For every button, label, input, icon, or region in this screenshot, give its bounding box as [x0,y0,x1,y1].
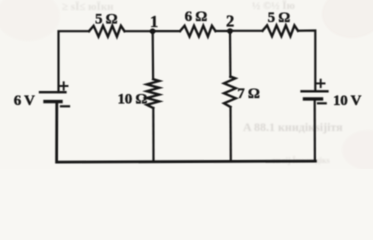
resistor R5 7ohm (vertical) zigzag [224,77,236,108]
wire: node 1 down to R4 [152,31,155,79]
svg-text:10 Ω: 10 Ω [118,92,148,108]
svg-text:5 Ω: 5 Ω [268,10,291,26]
resistor R3 5ohm (top right) zigzag [263,25,299,36]
battery V1 minus sign [61,105,69,107]
faint corner blotches [0,0,373,170]
battery V1 plus sign [60,82,68,89]
wire: node 2 down to R5 [229,31,232,77]
wire: battery V2 to bottom-right corner [314,99,316,161]
wire: R4 to bottom rail [152,108,154,162]
battery V2 plus sign [317,80,325,87]
battery V2 minus sign [318,102,326,104]
svg-text:5 Ω: 5 Ω [95,11,118,27]
wire: R1 to node 1 [125,30,153,32]
node 1 junction dot [150,28,156,34]
battery V1 6V plates [40,91,66,93]
paper background [0,0,373,169]
svg-text:6 Ω: 6 Ω [185,9,208,25]
faint bleed-through text [62,0,343,165]
wire: R2 to node 2 [216,30,231,32]
svg-text:10 V: 10 V [333,93,362,109]
wire: battery V1 to bottom-left corner and bottom rail [57,102,316,163]
resistor R1 5ohm (top left) zigzag [89,26,125,37]
svg-text:6 V: 6 V [14,93,35,109]
svg-text:1: 1 [150,12,158,31]
resistor R4 10ohm (vertical) zigzag [147,79,159,108]
wire: R3 to top-right corner, down to battery V2 [298,31,315,92]
resistor R2 6ohm (top middle) zigzag [180,26,216,37]
svg-text:2: 2 [226,11,234,30]
wire: node 2 to R3 [230,30,263,32]
svg-text:7 Ω: 7 Ω [237,86,260,102]
wire: top-left corner to R1 [59,31,90,92]
node 2 junction dot [227,28,233,34]
battery V2 10V plates [302,90,328,92]
wire: node 1 to R2 [153,30,181,32]
svg-text:A 88.1 книдікѕіјітя: A 88.1 книдікѕіјітя [243,120,343,134]
wire: R5 to bottom rail [229,107,232,161]
